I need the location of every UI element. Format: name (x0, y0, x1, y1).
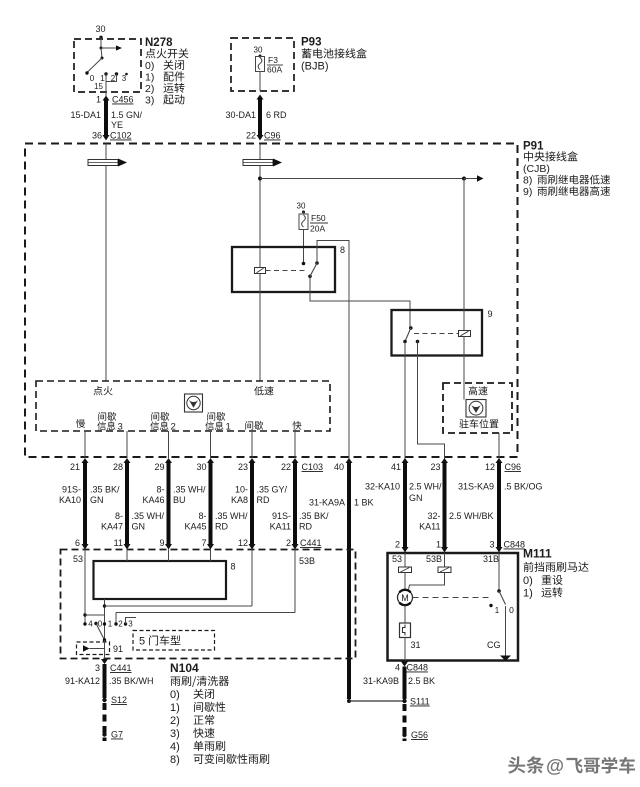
case ground CG symbol (500, 656, 511, 662)
svg-text:.35 BK/WH: .35 BK/WH (109, 676, 154, 686)
relay 8 actuation dashed line (266, 270, 307, 272)
wire pin7 to module (210, 550, 212, 562)
svg-text:1.5 GN/: 1.5 GN/ (111, 110, 143, 120)
svg-text:KA46: KA46 (142, 495, 164, 505)
wire switch-signal 5 to CJB edge (251, 431, 253, 458)
svg-text:2): 2) (145, 83, 154, 95)
svg-text:31-KA9B: 31-KA9B (363, 676, 399, 686)
wire 8-KA47 .35 WH/GN (124, 458, 131, 463)
31B wire to park switch (498, 553, 500, 591)
wiper switch function dashed box (36, 381, 330, 431)
svg-text:C103: C103 (302, 462, 324, 472)
wire switch-signal 1 to CJB edge (84, 431, 86, 458)
svg-text:2.5 BK: 2.5 BK (408, 676, 435, 686)
svg-text:22: 22 (246, 131, 256, 141)
svg-text:22: 22 (281, 462, 291, 472)
ignition switch N278 dashed box (74, 39, 141, 92)
junction node to relay 9 (462, 177, 466, 181)
svg-text:9: 9 (487, 309, 492, 319)
svg-text:4): 4) (170, 741, 180, 753)
svg-text:.5 BK/OG: .5 BK/OG (504, 482, 543, 492)
wire 91S-KA11 .35 BK/RD (292, 458, 299, 463)
N278 contact 2 (115, 72, 118, 75)
relay 8 NO wire loop to pin 40 column (317, 241, 349, 460)
switch contact 0 (94, 622, 97, 625)
svg-text:F3: F3 (268, 55, 278, 65)
wire ignition into CJB (105, 144, 107, 160)
relay 8 (low speed wiper relay) box (232, 247, 335, 292)
N278 start-position arrow (101, 47, 116, 49)
svg-text:91S-: 91S- (272, 511, 291, 521)
svg-text:29: 29 (154, 462, 164, 472)
svg-text:4: 4 (88, 620, 93, 629)
svg-text:8): 8) (523, 175, 532, 187)
park switch wire to case ground (505, 606, 507, 656)
wire 32-KA10 2.5 WH/GN (pin 41 to motor 53) (402, 458, 409, 463)
svg-text:N278: N278 (145, 37, 173, 49)
switch contact 2 (114, 622, 117, 625)
wire 31-KA9A 1 BK (pin 40 to S111) (346, 458, 353, 463)
wire battery into CJB (259, 144, 261, 160)
bus wire to pin 2 (116, 612, 295, 614)
wire pin12 to contact bus (251, 550, 253, 607)
svg-text:53: 53 (392, 554, 402, 564)
relay 8 NO contact (315, 261, 319, 265)
svg-text:KA11: KA11 (419, 522, 440, 532)
svg-text:1: 1 (226, 422, 231, 433)
park position function dashed box (443, 383, 512, 433)
svg-text:(BJB): (BJB) (301, 61, 329, 73)
relay 9 coil (459, 331, 471, 337)
svg-text:C441: C441 (300, 538, 322, 548)
svg-text:C96: C96 (505, 462, 522, 472)
switch contact 1 (103, 622, 106, 625)
label park position (zhuche weizhi) (459, 419, 498, 428)
svg-text:31: 31 (411, 640, 421, 650)
svg-text:P93: P93 (301, 37, 321, 49)
svg-text:32-KA10: 32-KA10 (365, 482, 400, 492)
wire 31S-KA9 .5 BK/OG (pin 12 to motor 31B) (496, 458, 503, 463)
relay 9 common contact (409, 326, 413, 330)
wiper icon (intermittent) (185, 394, 203, 412)
label intermittent info 2 (151, 412, 169, 421)
single-wipe feature dashed box (77, 642, 110, 655)
N278 contact 1 (104, 72, 107, 75)
ground wire to G56 (403, 704, 407, 741)
svg-text:@: @ (546, 755, 564, 776)
svg-text:8-: 8- (115, 511, 123, 521)
splice S12 (102, 698, 106, 702)
wire brush 53 to motor (404, 573, 406, 591)
svg-text:28: 28 (113, 462, 123, 472)
svg-text:0: 0 (509, 605, 514, 615)
label high speed (gaosu) (469, 386, 488, 395)
svg-text:1): 1) (523, 588, 533, 600)
svg-text:53: 53 (73, 554, 83, 564)
svg-text:53B: 53B (426, 554, 442, 564)
svg-text:10-: 10- (235, 485, 248, 495)
label low speed (disu) (254, 386, 273, 395)
svg-text:GN: GN (132, 522, 146, 532)
wire brush 53B to motor (409, 573, 445, 590)
N278 wiper arm (87, 58, 102, 73)
wire relay 9 contact A to pin 41 (404, 342, 406, 460)
ground wire to G7 (103, 703, 107, 741)
svg-text:.35 WH/: .35 WH/ (173, 485, 206, 495)
wire F3 to C96 (259, 72, 261, 92)
svg-text:1: 1 (108, 620, 113, 629)
N278 contact 0 (85, 71, 88, 74)
relay 8 common wire to relay 9 (310, 276, 410, 328)
svg-text:.35 WH/: .35 WH/ (132, 511, 165, 521)
svg-text:60A: 60A (267, 65, 282, 75)
N278 terminal 15 wire (105, 82, 107, 97)
svg-text:KA8: KA8 (231, 495, 248, 505)
svg-text:2: 2 (118, 620, 123, 629)
battery junction box P93 dashed box (231, 38, 294, 91)
svg-text:YE: YE (111, 120, 123, 130)
svg-text:31B: 31B (483, 554, 499, 564)
svg-text:9): 9) (523, 186, 532, 198)
svg-text:.35 BK/: .35 BK/ (90, 485, 120, 495)
svg-text:G56: G56 (411, 730, 428, 740)
switch contact 3 (124, 622, 127, 625)
svg-text:3): 3) (145, 95, 154, 107)
wire battery to relay 8 coil (259, 166, 261, 268)
svg-text:CG: CG (487, 640, 501, 650)
svg-text:0): 0) (170, 689, 180, 701)
svg-text:RD: RD (299, 522, 312, 532)
wiper/washer switch N104 dashed box (61, 550, 356, 659)
svg-text:C848: C848 (504, 540, 526, 550)
svg-text:30: 30 (196, 462, 206, 472)
relay 9 (high speed wiper relay) box (392, 310, 483, 356)
svg-text:41: 41 (391, 462, 401, 472)
N278 contact bridge 1-2 (106, 74, 117, 82)
park switch arm (499, 591, 506, 605)
svg-text:31S-KA9: 31S-KA9 (458, 482, 494, 492)
wire 91-KA12 .35 BK/WH (103, 664, 107, 698)
svg-text:5: 5 (139, 636, 145, 648)
svg-text:0: 0 (98, 620, 103, 629)
link contact4 to main (85, 614, 105, 616)
wire 10-KA8 .35 GY/RD (249, 458, 256, 463)
svg-text:C96: C96 (264, 131, 281, 141)
svg-text:2: 2 (286, 538, 291, 548)
relay 9 actuation dashed line (414, 333, 459, 335)
svg-text:GN: GN (90, 495, 104, 505)
svg-text:G7: G7 (111, 730, 123, 740)
svg-text:C441: C441 (110, 663, 132, 673)
svg-text:12: 12 (485, 462, 495, 472)
svg-text:0): 0) (523, 575, 533, 587)
svg-text:30: 30 (297, 202, 306, 211)
switch contact 4 (83, 622, 86, 625)
wire power rail to relay 9 coil (463, 179, 465, 331)
park switch contact 1 (489, 604, 492, 607)
relay 9 contact B (416, 340, 420, 344)
svg-text:0): 0) (145, 60, 154, 72)
svg-text:S12: S12 (111, 695, 127, 705)
svg-text:KA45: KA45 (184, 522, 206, 532)
N104 switch arm (96, 624, 105, 641)
power rail wire (260, 178, 464, 180)
svg-text:RD: RD (257, 495, 270, 505)
wire resistor to pin 4 (404, 638, 406, 661)
svg-text:15: 15 (94, 82, 103, 91)
svg-text:15-DA1: 15-DA1 (70, 110, 101, 120)
svg-text:M111: M111 (523, 547, 552, 561)
ground G56 (402, 733, 406, 737)
svg-text:M: M (401, 593, 409, 603)
svg-text:.35 WH/: .35 WH/ (215, 511, 248, 521)
svg-text:2: 2 (171, 422, 176, 433)
wire ignition to switch logic (105, 166, 107, 382)
fuse F50 20A (299, 214, 308, 230)
svg-text:8-: 8- (156, 485, 164, 495)
svg-text:4: 4 (395, 663, 400, 673)
svg-text:11: 11 (114, 538, 123, 548)
svg-text:C848: C848 (407, 663, 429, 673)
svg-text:1 BK: 1 BK (354, 498, 374, 508)
svg-text:9: 9 (159, 538, 164, 548)
svg-text:91S-: 91S- (62, 485, 81, 495)
intermittent module box 8 (94, 561, 227, 599)
wire pin6 to contact 4 (84, 550, 86, 625)
wire 31-KA9B 2.5 BK (403, 667, 407, 700)
svg-text:.35 BK/: .35 BK/ (299, 511, 329, 521)
wire 15-DA1 1.5 GN/YE (ignition feed) (103, 96, 110, 101)
wire park switch to pin 12 (498, 433, 500, 459)
relay 9 switch arm (405, 328, 411, 342)
junction node battery rail (258, 177, 262, 181)
wire junction to S111 (349, 700, 404, 702)
wire relay 9 coil to park switch (463, 337, 465, 400)
svg-text:30-DA1: 30-DA1 (225, 110, 256, 120)
svg-text:1: 1 (96, 95, 101, 105)
svg-text:6 RD: 6 RD (266, 110, 287, 120)
N278 wiper arm pivot (101, 48, 102, 58)
wire 8-KA46 .35 WH/BU (165, 458, 172, 463)
svg-text:2.5 WH/BK: 2.5 WH/BK (449, 511, 494, 521)
module 8 output wire (104, 599, 106, 640)
splice S111 (402, 699, 406, 703)
wire switch-signal 2 to CJB edge (126, 431, 128, 458)
svg-text:KA11: KA11 (270, 522, 291, 532)
label intermittent info 1 (207, 412, 225, 421)
svg-text:3: 3 (118, 422, 123, 433)
svg-text:3): 3) (170, 728, 180, 740)
svg-text:36: 36 (92, 131, 102, 141)
svg-text:6: 6 (75, 538, 80, 548)
svg-text:53B: 53B (299, 556, 315, 566)
relay 8 switch arm (310, 263, 317, 276)
5-door model dashed box (133, 631, 215, 651)
N104 output wire to C441 (104, 640, 106, 659)
svg-text:21: 21 (70, 462, 80, 472)
motor-park dashed actuation line (413, 597, 490, 599)
wire relay 9 contact B to pin 23 (418, 342, 445, 460)
svg-text:RD: RD (215, 522, 228, 532)
svg-text:12: 12 (238, 538, 248, 548)
junction node wire40/S111 (347, 699, 351, 703)
svg-text:20A: 20A (310, 224, 325, 234)
svg-text:32-: 32- (427, 511, 440, 521)
motor brush contact 53 (404, 553, 406, 567)
svg-text:23: 23 (238, 462, 248, 472)
wire switch-signal 3 to CJB edge (168, 431, 170, 458)
svg-text:40: 40 (334, 462, 344, 472)
svg-text:.35 GY/: .35 GY/ (257, 485, 288, 495)
svg-text:30: 30 (254, 46, 263, 55)
label slow (man) (76, 419, 85, 428)
relay 8 common contact (308, 275, 312, 279)
wiper icon (park position) (466, 400, 486, 418)
svg-text:23: 23 (430, 462, 440, 472)
svg-text:3: 3 (128, 620, 133, 629)
svg-text:S111: S111 (410, 697, 430, 707)
wire relay 8 coil to low-speed node (259, 274, 261, 382)
motor brush contact 53B (444, 553, 446, 567)
relay 8 coil (255, 268, 266, 274)
svg-text:30: 30 (95, 24, 105, 34)
svg-text:1): 1) (170, 702, 180, 714)
bus wire to pin 12 (105, 605, 253, 607)
svg-text:8: 8 (230, 562, 235, 572)
svg-text:BU: BU (173, 495, 186, 505)
N278 contact 3 (125, 73, 128, 76)
svg-text:1: 1 (436, 540, 441, 550)
motor M (wiper motor) (398, 590, 413, 605)
svg-text:2: 2 (395, 540, 400, 550)
relay 9 contact A (403, 340, 407, 344)
svg-text:KA47: KA47 (101, 522, 123, 532)
svg-text:N104: N104 (170, 661, 199, 675)
svg-text:3: 3 (122, 74, 127, 83)
label fast (kuai) (292, 421, 301, 430)
svg-text:91: 91 (113, 644, 123, 654)
fuse F3 60A (256, 57, 265, 72)
svg-text:8: 8 (340, 245, 345, 255)
wire 8-KA45 .35 WH/RD (207, 458, 214, 463)
svg-text:3: 3 (489, 540, 494, 550)
svg-text:F50: F50 (311, 213, 326, 223)
N278 internal wire from 30 (100, 37, 102, 48)
pin 3 / connector C441 (bottom) (101, 659, 108, 664)
wire 91S-KA10 .35 BK/GN (82, 458, 89, 463)
svg-text:8): 8) (170, 754, 180, 766)
pin 4 / connector C848 (bottom) (401, 662, 408, 667)
wire switch-signal 4 to CJB edge (210, 431, 212, 458)
wire switch-signal 6 to CJB edge (294, 431, 296, 458)
svg-text:8-: 8- (198, 511, 206, 521)
in-line connector symbol (ignition circuit) (88, 160, 118, 166)
park switch pivot (497, 589, 501, 593)
svg-text:91-KA12: 91-KA12 (65, 676, 100, 686)
svg-text:2): 2) (170, 715, 180, 727)
in-line connector symbol (battery circuit) (243, 160, 273, 166)
svg-text:1: 1 (495, 606, 500, 615)
svg-text:P91: P91 (523, 141, 544, 153)
wire 32-KA11 2.5 WH/BK (pin 23 to motor 53B) (441, 458, 448, 463)
watermark toutiao @feige xueche (508, 756, 544, 773)
wire 30-DA1 6 RD (battery feed) (257, 95, 264, 100)
svg-text:C456: C456 (112, 95, 134, 105)
wire F50 to relay 8 (303, 230, 305, 264)
svg-text:31-KA9A: 31-KA9A (309, 498, 345, 508)
svg-text:GN: GN (409, 493, 423, 503)
power rail continuation arrow (464, 178, 477, 180)
wire pin11 to module (126, 550, 128, 562)
central junction box P91 dashed box (25, 144, 518, 458)
svg-text:KA10: KA10 (59, 495, 81, 505)
svg-text:7: 7 (201, 538, 206, 548)
svg-text:1): 1) (145, 72, 154, 84)
svg-text:(CJB): (CJB) (523, 163, 550, 175)
thermal resistor 31 (400, 623, 411, 638)
single-wipe arrow symbol (83, 645, 90, 651)
ground G7 (102, 732, 106, 736)
svg-text:3: 3 (95, 663, 100, 673)
label intermittent (jianxie) (245, 421, 263, 430)
wire pin2 to contact 2 bus (294, 550, 296, 613)
svg-text:2.5 WH/: 2.5 WH/ (409, 482, 442, 492)
front wiper motor M111 box (388, 553, 519, 661)
wire pin9 to module (168, 550, 170, 562)
relay 8 NC contact from F50 (302, 262, 306, 266)
label intermittent info 3 (98, 412, 116, 421)
wire motor to resistor (404, 605, 406, 623)
svg-text:C102: C102 (110, 131, 132, 141)
label ignition (dianhuo) (93, 386, 112, 395)
